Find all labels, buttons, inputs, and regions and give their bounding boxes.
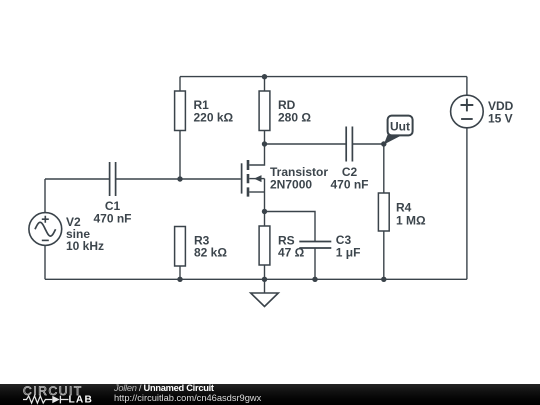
svg-text:47 Ω: 47 Ω [278, 246, 305, 260]
wire R1 branch top [179, 77, 181, 91]
node R3 bottom junction [177, 277, 182, 282]
wire drain node to C2 [265, 143, 346, 145]
svg-text:220 kΩ: 220 kΩ [194, 111, 234, 125]
wire C1 to node A [116, 178, 180, 180]
svg-text:1 MΩ: 1 MΩ [396, 213, 426, 227]
wire source node to C3 [265, 212, 316, 242]
node ground junction [262, 277, 267, 282]
svg-text:2N7000: 2N7000 [270, 177, 312, 191]
resistor RS [259, 226, 305, 265]
capacitor C2 [330, 127, 368, 192]
node C3 bottom junction [312, 277, 317, 282]
wire RD bottom to drain node [264, 131, 266, 145]
node source junction [262, 209, 267, 214]
wire R1 bottom to node A [179, 131, 181, 180]
footer bar [0, 384, 540, 405]
wire R4 bottom [383, 231, 385, 279]
resistor RD [259, 91, 311, 131]
node output junction [381, 141, 386, 146]
wire V2 to C1 [45, 178, 109, 180]
flag Uut [384, 116, 413, 145]
wire VDD bottom branch [466, 128, 468, 279]
wire C3 bottom [314, 249, 316, 280]
svg-text:470 nF: 470 nF [330, 177, 368, 191]
svg-text:15 V: 15 V [488, 111, 513, 125]
wire bottom rail [45, 278, 467, 280]
voltage source VDD [451, 77, 514, 128]
wire R3 bottom [179, 266, 181, 279]
resistor R1 [175, 91, 234, 131]
capacitor C1 [93, 162, 131, 225]
wire RS bottom [264, 265, 266, 279]
wire top rail [180, 76, 467, 78]
wire gate [180, 178, 241, 180]
footer text [114, 383, 261, 403]
resistor R4 [378, 193, 426, 231]
wire V2 bottom branch [44, 245, 46, 279]
svg-text:Uut: Uut [390, 119, 410, 133]
wire C2 to output node [352, 143, 383, 145]
voltage source V2 sine [29, 179, 104, 253]
svg-text:LAB: LAB [69, 394, 94, 405]
wire RD branch top [264, 77, 266, 91]
svg-text:470 nF: 470 nF [93, 211, 131, 225]
node junction top rail / RD [262, 74, 267, 79]
svg-text:1 μF: 1 μF [336, 246, 361, 260]
capacitor C3 [299, 233, 360, 260]
resistor R3 [175, 227, 228, 267]
wire output node down to R4 [383, 144, 385, 193]
node R4 bottom junction [381, 277, 386, 282]
transistor U1 2N7000 [242, 144, 329, 212]
node A junction R1/R3/C1/gate [177, 176, 182, 181]
wire source node to RS [264, 212, 266, 227]
ground [251, 279, 279, 306]
svg-text:82 kΩ: 82 kΩ [194, 246, 227, 260]
svg-text:10 kHz: 10 kHz [66, 239, 104, 253]
CircuitLab logo [0, 384, 110, 405]
node drain junction [262, 141, 267, 146]
svg-text:280 Ω: 280 Ω [278, 111, 311, 125]
